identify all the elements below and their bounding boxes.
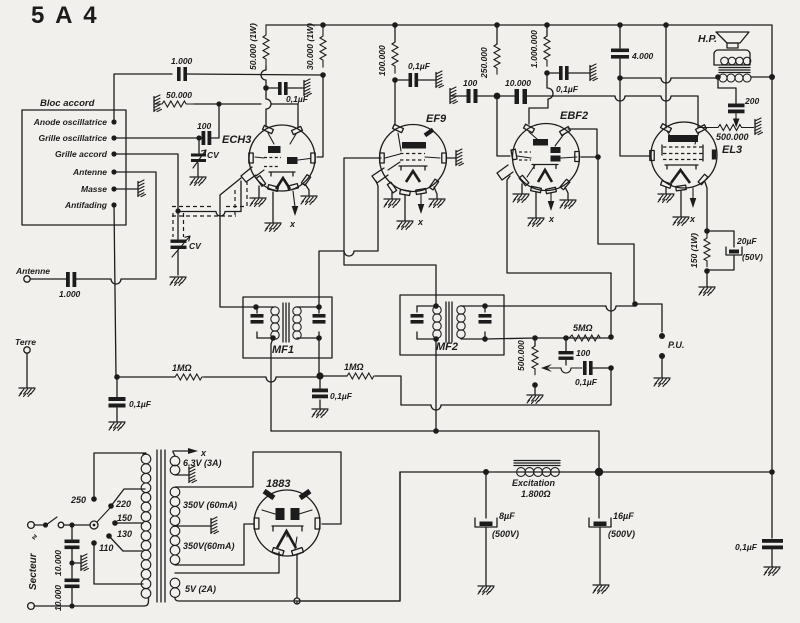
mf2 nodes xyxy=(433,303,439,309)
wire 1883 filament center to B+ xyxy=(297,472,400,604)
capacitor 16uF (500V) xyxy=(589,476,635,584)
svg-text:x: x xyxy=(200,448,207,458)
wire 4.000 junction to hp secondary (hop at 666) xyxy=(620,78,717,83)
transformer MF1 box xyxy=(243,297,332,358)
ground terre xyxy=(19,388,35,397)
capacitor 100 ebf2 xyxy=(463,78,478,103)
svg-text:16µF: 16µF xyxy=(613,511,634,521)
wire heater bus xyxy=(271,431,599,472)
node 4.000 bottom xyxy=(617,75,623,81)
wire right edge down xyxy=(771,77,773,538)
antenne terminal xyxy=(15,266,50,282)
chassis ef9 0,1uF xyxy=(436,71,444,88)
node b+ 16uF xyxy=(595,468,603,476)
ebf2 internal connections xyxy=(517,132,577,177)
mf2 secondary coil xyxy=(457,306,465,314)
mf1 secondary cap xyxy=(313,307,326,338)
capacitor 10.000 lower xyxy=(53,566,80,611)
svg-text:0,1µF: 0,1µF xyxy=(129,399,152,409)
node secteur bottom xyxy=(69,603,74,608)
svg-text:Bloc accord: Bloc accord xyxy=(40,98,95,109)
svg-text:1MΩ: 1MΩ xyxy=(344,362,364,372)
svg-text:5MΩ: 5MΩ xyxy=(573,323,593,333)
node junction 100 cap xyxy=(196,135,201,140)
wire masse to wall xyxy=(114,188,137,190)
ef9 cathode bracket xyxy=(399,166,427,170)
svg-text:EL3: EL3 xyxy=(722,144,742,156)
svg-text:0,1µF: 0,1µF xyxy=(556,84,579,94)
tube 1883 xyxy=(254,478,320,556)
ebf2 grid cap spigot xyxy=(497,165,513,180)
svg-text:0,1µF: 0,1µF xyxy=(330,391,353,401)
wire grid line to el3 (hops at 548,620,666) xyxy=(497,96,698,128)
secondary 350V top xyxy=(170,487,237,525)
node ech3 anode junction xyxy=(263,85,269,91)
node 1.000.000 bottom xyxy=(544,70,550,76)
node grille accord bend xyxy=(175,208,180,213)
node masse xyxy=(111,186,116,191)
node 5M right xyxy=(608,334,614,340)
svg-text:P.U.: P.U. xyxy=(668,340,684,350)
svg-text:150: 150 xyxy=(117,513,132,523)
node grille oscillatrice xyxy=(111,135,116,140)
secondary 6,3V xyxy=(170,448,221,475)
node caps junction xyxy=(494,93,501,100)
node avc junction xyxy=(114,374,120,380)
capacitor 4.000 xyxy=(611,22,654,75)
wire ef9 grid to MF1 secondary (hop at 344) xyxy=(319,181,378,307)
wire 350V top to 1883 xyxy=(175,452,341,524)
svg-text:Anode oscillatrice: Anode oscillatrice xyxy=(33,117,107,127)
wire 250.000 junction to ebf2 diode xyxy=(497,96,510,156)
node b+ 8uF xyxy=(483,469,489,475)
svg-text:EF9: EF9 xyxy=(426,113,447,125)
node 100.000 bottom xyxy=(392,77,398,83)
node caps tap xyxy=(69,522,74,527)
node pot bottom xyxy=(532,382,538,388)
svg-text:10.000: 10.000 xyxy=(505,78,531,88)
mf1 secondary coil xyxy=(293,307,301,315)
mf1 core xyxy=(283,303,289,342)
wire 1M to mf1 junction xyxy=(204,377,319,382)
variable capacitor CV1 xyxy=(191,141,220,176)
wire secteur bottom to primary xyxy=(34,597,149,606)
capacitor 0,1uF det xyxy=(312,379,353,408)
transformer MF2 box xyxy=(400,295,504,355)
resistor 30.000(1W) xyxy=(305,22,326,70)
ef9 cathode arrow X xyxy=(420,194,422,206)
svg-text:220: 220 xyxy=(115,499,131,509)
svg-text:1.000: 1.000 xyxy=(59,289,81,299)
tube ECH3 xyxy=(222,125,315,191)
svg-text:8µF: 8µF xyxy=(499,511,515,521)
choke excitation 1.800 xyxy=(512,461,560,500)
node 150 top xyxy=(704,228,710,234)
wire wall-100cap-junction xyxy=(450,95,497,97)
capacitor 200 xyxy=(728,96,759,113)
svg-text:1.800Ω: 1.800Ω xyxy=(521,489,551,499)
node heater bus junction xyxy=(433,428,439,434)
mf2 primary cap xyxy=(411,306,424,339)
chassis masse xyxy=(138,180,146,197)
potentiometer 500.000 volume xyxy=(516,340,538,375)
node hp secondary left xyxy=(715,74,721,80)
wire 5V top to 1883 xyxy=(175,552,279,573)
variable capacitor CV2 xyxy=(171,213,203,275)
svg-text:4.000: 4.000 xyxy=(631,51,654,61)
center tap wall xyxy=(175,525,210,527)
ground CV2 xyxy=(170,277,186,286)
secondary 350V bottom xyxy=(170,526,234,564)
node mf1 bottom junction xyxy=(316,372,323,379)
wire detector output line (hop at 611) to P.U. xyxy=(485,306,635,311)
hp field coil housing xyxy=(714,50,750,65)
ebf2 internal grids dashed xyxy=(519,152,531,160)
wire ebf2 anode loop to detector node xyxy=(568,129,597,157)
svg-text:50.000 (1W): 50.000 (1W) xyxy=(248,23,258,70)
ech3 internal anode 2 xyxy=(287,157,298,164)
ebf2 pin grounds xyxy=(521,184,523,193)
svg-text:x: x xyxy=(689,214,696,224)
wire cap to wall xyxy=(550,72,589,74)
resistor 1.000.000 xyxy=(529,22,550,68)
svg-text:1883: 1883 xyxy=(266,478,290,490)
wire ef9 g3 to MF2 primary xyxy=(344,158,436,306)
svg-text:Grille accord: Grille accord xyxy=(55,149,108,159)
node 150 bottom xyxy=(704,268,710,274)
svg-text:10.000: 10.000 xyxy=(53,550,63,576)
svg-text:Antenne: Antenne xyxy=(15,266,50,276)
svg-text:H.P.: H.P. xyxy=(698,33,717,45)
ebf2 filament xyxy=(538,170,552,182)
selector taps xyxy=(70,495,132,553)
node 30.000 bottom xyxy=(320,72,326,78)
ech3 pin grounds xyxy=(258,186,260,197)
svg-text:500.000: 500.000 xyxy=(516,340,526,371)
node grille accord xyxy=(111,151,116,156)
1883 cathode output terminal xyxy=(294,598,300,604)
potentiometer 500.000 tone xyxy=(700,125,754,143)
svg-text:0,1µF: 0,1µF xyxy=(408,61,431,71)
svg-text:30.000 (1W): 30.000 (1W) xyxy=(305,23,315,70)
el3 pin grounds xyxy=(665,187,667,193)
svg-text:100: 100 xyxy=(197,121,211,131)
tube EL3 xyxy=(650,122,742,191)
resistor 1 Mohm left xyxy=(117,363,204,380)
svg-text:CV: CV xyxy=(189,241,202,251)
ground CV1 xyxy=(190,177,206,186)
svg-text:110: 110 xyxy=(99,543,113,553)
P.U. terminals xyxy=(659,333,684,377)
wire terre down xyxy=(26,353,28,387)
wire 50.000 hop over y75 line, to anode junction xyxy=(261,66,266,88)
node 100 cap top xyxy=(563,335,569,341)
chassis 500.000 right xyxy=(755,118,763,135)
svg-text:Masse: Masse xyxy=(81,184,107,194)
svg-text:Grille oscillatrice: Grille oscillatrice xyxy=(38,133,107,143)
rotary selector xyxy=(90,521,98,529)
svg-text:5 A 4: 5 A 4 xyxy=(31,2,99,29)
hp core xyxy=(719,68,750,73)
svg-text:x: x xyxy=(417,217,424,227)
wire 30.000 to ech3 plate pin xyxy=(317,75,323,157)
ech3 cathode arrow X xyxy=(293,191,295,207)
wire 100.000 to ef9 top xyxy=(394,80,396,125)
mf2 primary coil xyxy=(417,306,436,339)
svg-text:ECH3: ECH3 xyxy=(222,134,251,146)
svg-text:250: 250 xyxy=(70,495,86,505)
wire mf1 secondary bottom to avc junction xyxy=(318,338,320,375)
wire 5V bottom / cathode return xyxy=(175,472,400,601)
svg-text:1MΩ: 1MΩ xyxy=(172,363,192,373)
svg-text:6,3V (3A): 6,3V (3A) xyxy=(183,458,222,468)
wire cap to wall xyxy=(269,87,303,89)
wire antenna line with hop over antifading xyxy=(30,279,156,284)
chassis ef9 right xyxy=(447,157,456,159)
ef9 filament xyxy=(406,171,420,182)
B+ top bus xyxy=(266,25,772,77)
1883 filament bracket xyxy=(272,526,303,531)
wire ebf2 grid cap to 5M network xyxy=(507,176,611,273)
resistor 250.000 xyxy=(479,22,500,79)
ebf2 cathode arrow X xyxy=(550,193,552,203)
svg-text:500.000: 500.000 xyxy=(716,132,749,142)
wire grille accord to ech3 grid (hop at 220) with dashed shield xyxy=(178,181,241,216)
node pu junction xyxy=(632,301,638,307)
wire mf2 secondary bottom bus xyxy=(485,338,611,339)
ef9 pin grounds xyxy=(391,192,393,198)
ef9 internal anode xyxy=(402,142,426,149)
capacitor 0,1uF ef9 xyxy=(408,61,431,87)
wire 5M junction up to spigot line (hop at 304) xyxy=(610,273,612,337)
capacitor 0,1uF output xyxy=(735,539,783,552)
node antenne xyxy=(111,169,116,174)
svg-text:0,1µF: 0,1µF xyxy=(735,542,758,552)
mf1 primary cap xyxy=(251,307,264,338)
hp secondary coil xyxy=(719,74,727,82)
resistor 1 Mohm right xyxy=(323,362,374,379)
chassis ebf2 0,1uF xyxy=(590,64,598,81)
svg-text:x: x xyxy=(548,214,555,224)
ech3 internal anode 1 xyxy=(268,146,281,153)
svg-text:x: x xyxy=(289,219,296,229)
chassis ech3 0,1uF xyxy=(304,79,312,96)
capacitor 0,1uF avc xyxy=(109,380,152,421)
1883 anode plates xyxy=(276,508,285,520)
wire grille accord row xyxy=(114,154,178,210)
el3 cathode arrow X xyxy=(692,188,694,200)
wire antenne row xyxy=(114,172,156,278)
ech3 cathode bracket xyxy=(269,172,295,176)
ech3 pin ticks xyxy=(263,125,274,133)
wire grille oscillatrice row xyxy=(114,137,199,139)
ebf2 internal diode plates xyxy=(551,147,561,153)
ef9 internal connections xyxy=(385,133,440,170)
ef9 grid cap spigot xyxy=(372,168,388,183)
1883 filament xyxy=(277,531,296,548)
capacitor 100 det xyxy=(559,341,591,365)
svg-text:Antifading: Antifading xyxy=(64,200,108,210)
ebf2 cathode bracket xyxy=(532,165,558,169)
svg-text:∿: ∿ xyxy=(30,534,39,541)
svg-text:Antenne: Antenne xyxy=(72,167,107,177)
node pot top xyxy=(532,335,538,341)
ech3 internal grids dashed xyxy=(264,158,281,167)
terre terminal xyxy=(15,337,36,353)
el3 filament xyxy=(671,170,690,183)
main B+ bus xyxy=(400,471,772,473)
ground 150 xyxy=(706,271,708,286)
wire mf1 primary bottom down (hop y376) xyxy=(271,338,273,431)
capacitor 0,1uF af xyxy=(575,361,598,387)
svg-text:50.000: 50.000 xyxy=(166,90,192,100)
wire 1M right to grid return bus xyxy=(375,376,401,405)
switch secteur xyxy=(34,524,43,526)
capacitor 1.000 antenna xyxy=(59,272,81,299)
secteur terminals xyxy=(28,522,39,610)
node 50.000 junction xyxy=(216,101,221,106)
wire anode junction down to pin (hop y104) xyxy=(266,91,271,127)
wire mf2 primary bottom down (hop y405) to heater bus xyxy=(435,339,437,431)
svg-text:MF1: MF1 xyxy=(272,344,294,356)
transformer core xyxy=(157,450,165,602)
hp primary coil xyxy=(721,57,729,65)
el3 internal anode xyxy=(668,135,698,142)
svg-text:MF2: MF2 xyxy=(436,341,458,353)
capacitor 0,1uF ech3 xyxy=(278,82,309,104)
wire anode oscillatrice up xyxy=(114,74,172,122)
bloc accord box xyxy=(22,110,126,225)
pot wiper arrow to 0,1uF (hop at 566) xyxy=(549,368,582,373)
wire 50.000 to ech3 g2 pin (hop at x266) xyxy=(194,104,298,127)
el3 internal grid box dashed xyxy=(663,147,703,160)
svg-text:0,1µF: 0,1µF xyxy=(286,94,309,104)
node hp secondary right xyxy=(769,74,775,80)
wire 350V bottom to 1883 xyxy=(175,524,254,565)
ech3 filament xyxy=(276,178,290,189)
svg-text:(50V): (50V) xyxy=(742,252,763,262)
node b+ right xyxy=(769,469,775,475)
node anode oscillatrice xyxy=(111,119,116,124)
chassis 100pf left xyxy=(450,87,458,104)
wire 4.000 to el3 g2 pin (vertical hops y96) xyxy=(620,81,651,156)
ebf2 internal anode xyxy=(533,139,548,146)
node antifading xyxy=(111,202,116,207)
resistor 50.000(1W) xyxy=(248,23,269,70)
H.P. speaker xyxy=(698,32,772,82)
wire 1.000.000 to ebf2 grid (vertical hops y96) xyxy=(529,76,553,124)
mf1 primary coil xyxy=(257,307,274,338)
resistor 50.000 xyxy=(154,90,194,107)
svg-text:0,1µF: 0,1µF xyxy=(575,377,598,387)
tube EBF2 xyxy=(497,110,588,194)
resistor 100.000 xyxy=(377,22,398,76)
wire bus to el3 anode xyxy=(665,25,667,128)
node caps mid xyxy=(69,560,74,565)
svg-text:(500V): (500V) xyxy=(608,529,635,539)
el3 internal connections xyxy=(667,131,699,144)
capacitor 0,1uF ebf2 grid xyxy=(556,66,579,94)
svg-text:1.000.000: 1.000.000 xyxy=(529,30,539,68)
chassis 50.000 left xyxy=(154,95,162,112)
wire 1.000 to 30.000 bottom xyxy=(187,74,321,75)
svg-text:100: 100 xyxy=(463,78,477,88)
svg-text:20µF: 20µF xyxy=(736,236,757,246)
arrow 200 to pot wiper xyxy=(735,114,737,121)
wire el3 cathode pin to 150 network xyxy=(705,182,707,231)
svg-text:Excitation: Excitation xyxy=(512,478,556,488)
svg-text:350V(60mA): 350V(60mA) xyxy=(183,541,235,551)
wire ech3 cathode to MF1 primary xyxy=(220,178,254,307)
mf2 core xyxy=(446,302,452,342)
ech3 internal connections xyxy=(255,133,310,176)
capacitor 1.000 top xyxy=(171,56,193,81)
el3 cathode bracket xyxy=(665,165,698,169)
svg-text:1.000: 1.000 xyxy=(171,56,193,66)
wire grid return bus (hop at 436) xyxy=(401,368,611,410)
transformer primary coil xyxy=(141,454,151,598)
svg-text:130: 130 xyxy=(117,529,132,539)
node top bus hp xyxy=(663,22,669,28)
capacitor 10.000 xyxy=(505,78,531,104)
svg-text:Terre: Terre xyxy=(15,337,36,347)
secondary 5V xyxy=(170,578,216,597)
mf2 secondary cap xyxy=(479,306,492,339)
ef9 internal grids dashed xyxy=(400,154,425,161)
svg-text:100: 100 xyxy=(576,348,590,358)
mf1 nodes xyxy=(253,304,259,310)
wire ef9 cap to wall xyxy=(398,79,435,81)
tap wires xyxy=(94,453,146,584)
svg-text:200: 200 xyxy=(744,96,759,106)
resistor 5 Mohm xyxy=(569,323,606,341)
capacitor 100 (ech3 grid) xyxy=(197,121,211,145)
wire 100 cap to 50.000 line xyxy=(211,104,219,138)
resistor 150 (1W) xyxy=(689,231,710,268)
svg-text:350V (60mA): 350V (60mA) xyxy=(183,500,237,510)
capacitor 10.000 upper xyxy=(53,525,80,576)
svg-text:150 (1W): 150 (1W) xyxy=(689,233,699,268)
svg-text:10.000: 10.000 xyxy=(53,585,63,611)
svg-text:250.000: 250.000 xyxy=(479,47,489,79)
wire hp secondary to 200 cap xyxy=(718,77,736,103)
svg-text:CV: CV xyxy=(207,150,220,160)
svg-text:EBF2: EBF2 xyxy=(560,110,588,122)
svg-text:Secteur: Secteur xyxy=(28,552,39,590)
node af junction xyxy=(608,365,614,371)
svg-text:100.000: 100.000 xyxy=(377,45,387,76)
capacitor 8uF (500V) xyxy=(475,475,519,585)
svg-text:5V (2A): 5V (2A) xyxy=(185,584,216,594)
ech3 grid cap spigot xyxy=(241,167,256,182)
wire antifading down xyxy=(114,205,116,377)
svg-text:(500V): (500V) xyxy=(492,529,519,539)
tube EF9 xyxy=(372,113,447,196)
capacitor 20uF (50V) electrolytic xyxy=(707,231,763,270)
